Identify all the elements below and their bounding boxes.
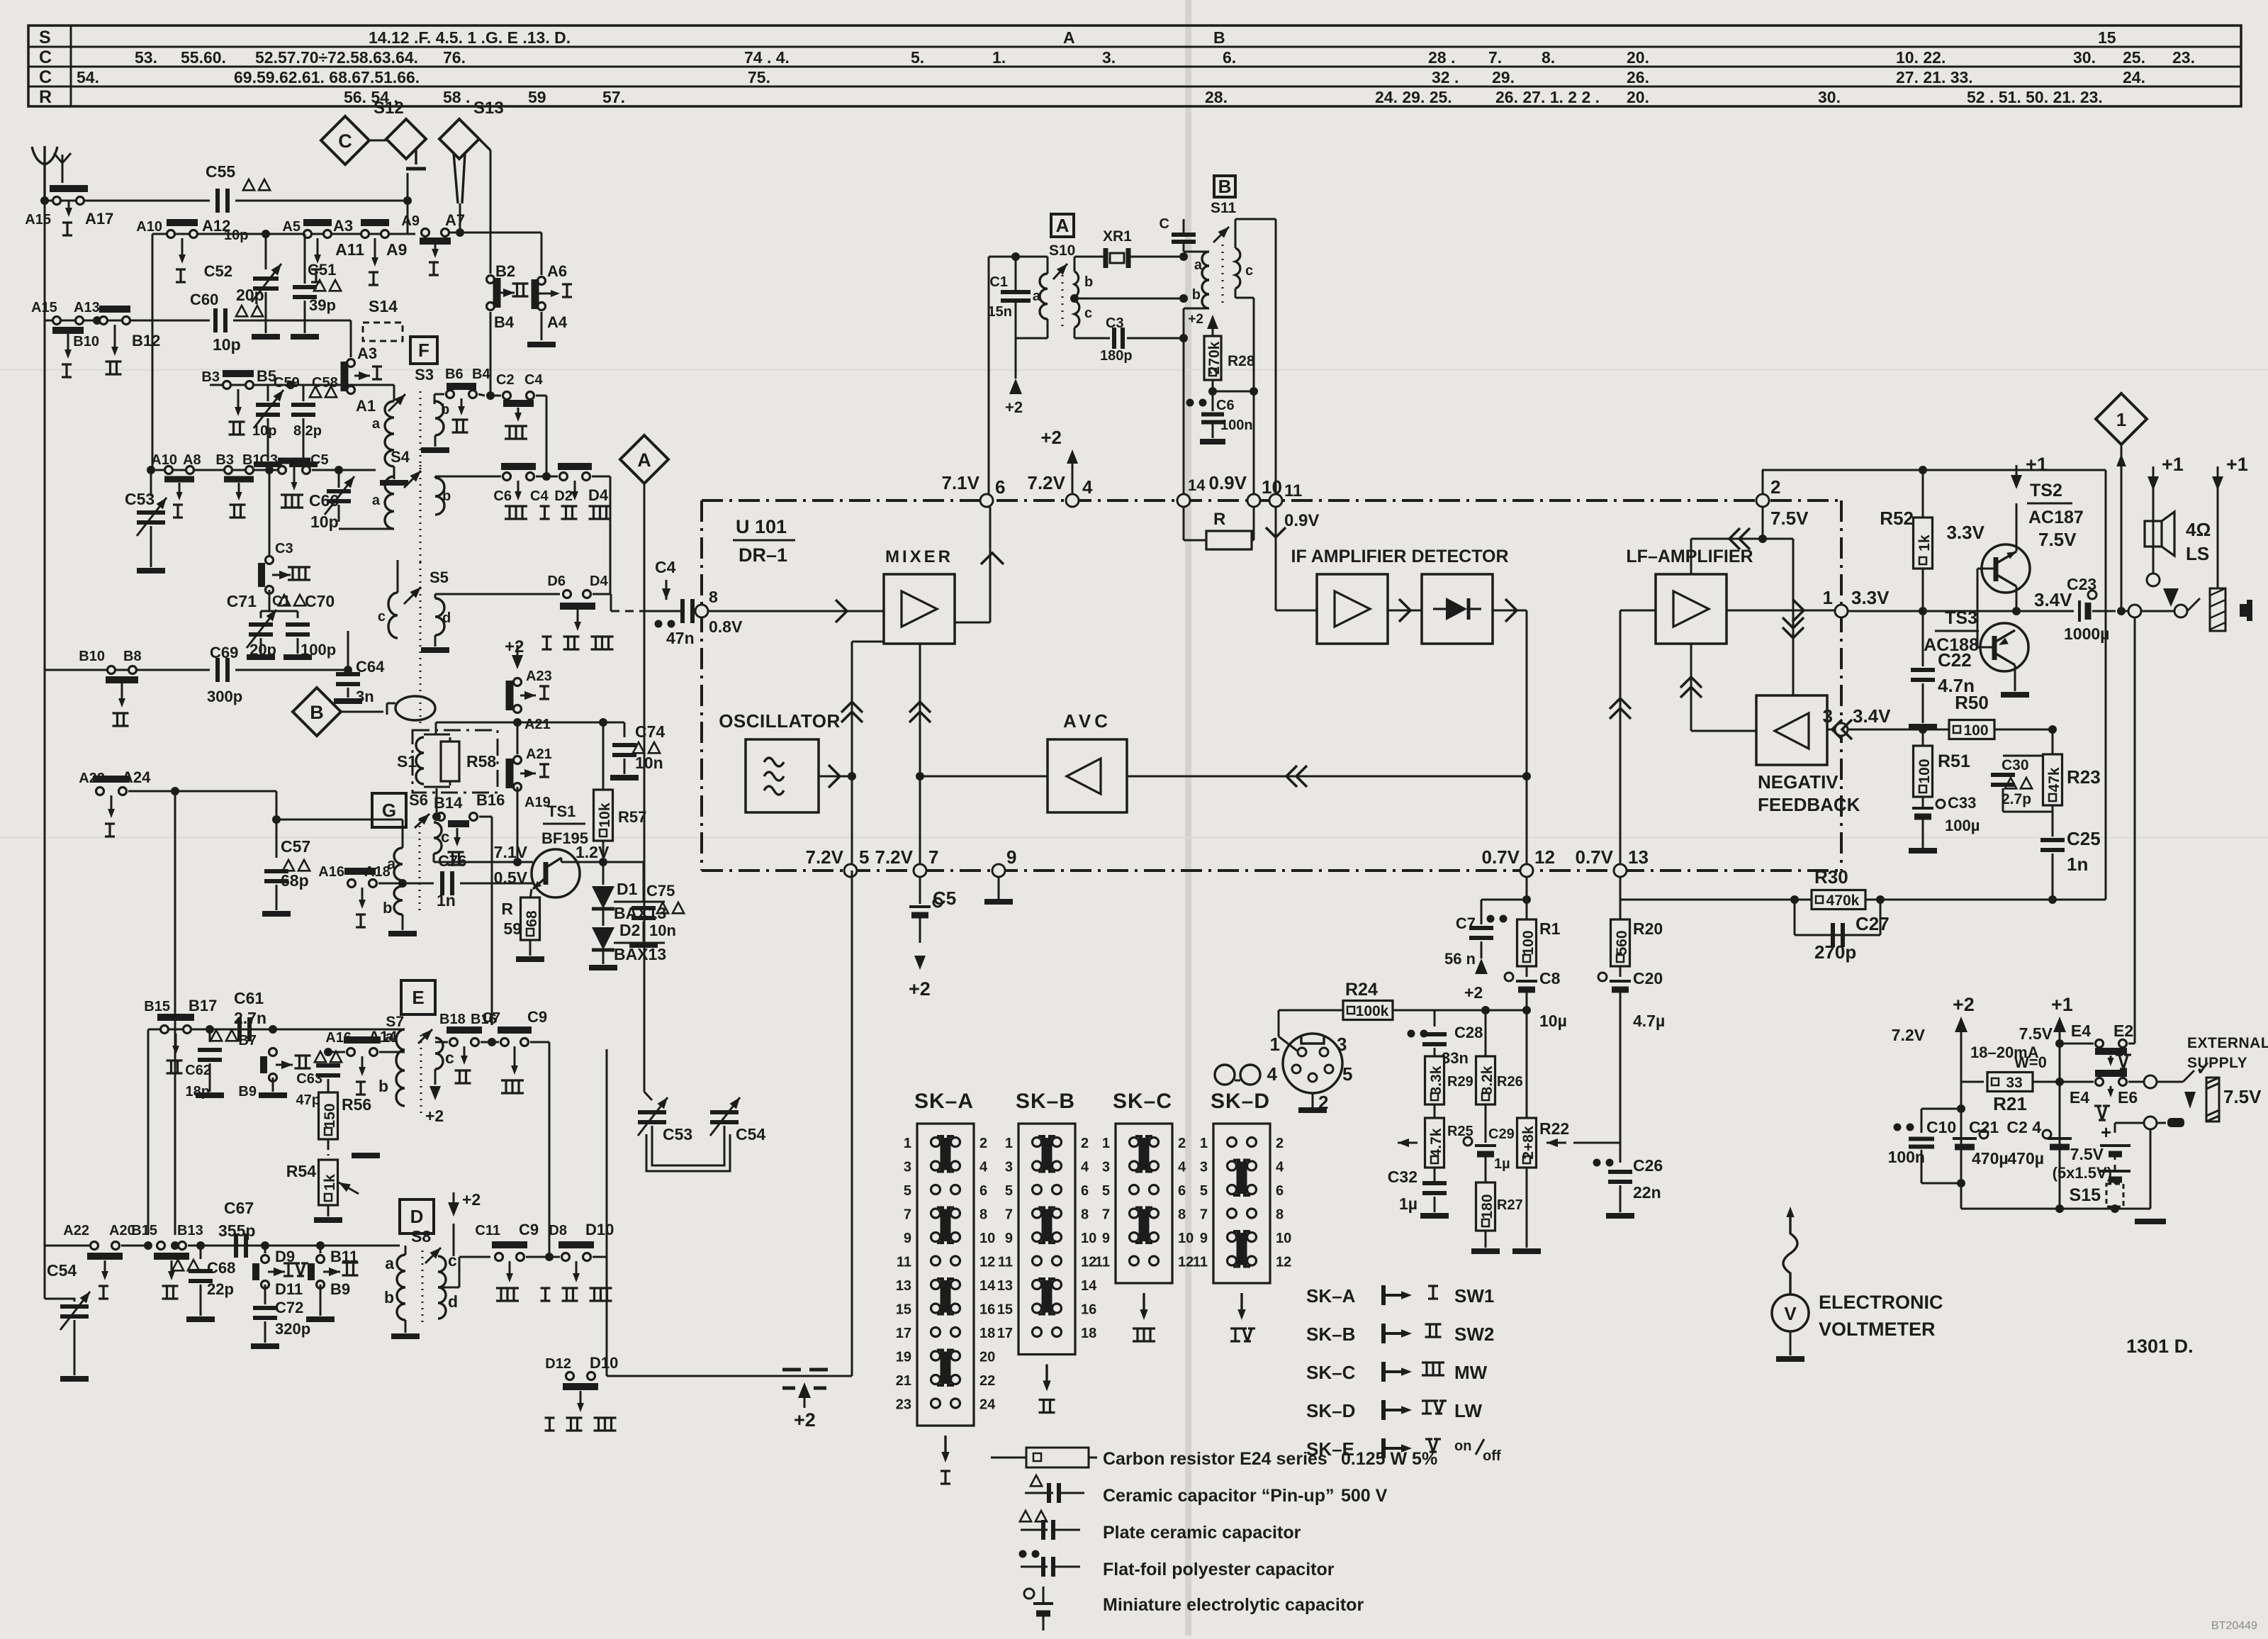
resistor R20 560 xyxy=(1611,919,1630,966)
svg-text:B: B xyxy=(310,702,324,723)
SK-B bridge pins 1-3 xyxy=(1042,1138,1048,1170)
svg-text:4: 4 xyxy=(1081,1160,1089,1175)
svg-text:B10: B10 xyxy=(79,649,105,664)
wire pin 13 up to LF amplifier xyxy=(1619,610,1622,864)
svg-text:7.2V: 7.2V xyxy=(1028,472,1066,493)
svg-text:B7: B7 xyxy=(238,1033,257,1048)
detector block xyxy=(1422,574,1493,644)
svg-text:6: 6 xyxy=(979,1183,987,1199)
svg-text:26. 27. 1. 2 2 .: 26. 27. 1. 2 2 . xyxy=(1495,88,1600,106)
module pin 6 with 7.1V xyxy=(980,494,993,507)
svg-text:S14: S14 xyxy=(369,297,398,315)
volume line from C8 to network xyxy=(1526,1010,1528,1024)
svg-text:B18: B18 xyxy=(439,1012,466,1027)
svg-text:D1: D1 xyxy=(617,880,638,898)
TS1 collector wire xyxy=(561,858,563,862)
supply +2 into pin 4 xyxy=(1067,449,1078,464)
svg-text:C55: C55 xyxy=(206,162,235,181)
supply +2 to R28 xyxy=(1207,315,1218,329)
svg-text:C54: C54 xyxy=(736,1125,765,1143)
svg-text:+2: +2 xyxy=(1188,312,1203,327)
wire TS2/TS3 bases xyxy=(1977,568,1996,570)
switch A3/A1 band I xyxy=(350,320,352,357)
trimmer C54 of tuning gang xyxy=(710,1110,739,1114)
capacitor C10 100n xyxy=(1957,1104,1965,1113)
svg-text:5: 5 xyxy=(1102,1183,1110,1199)
svg-text:1: 1 xyxy=(1270,1034,1280,1055)
capacitor C33 100u xyxy=(1922,797,1924,808)
gang dotted line S4-S5 to oval xyxy=(420,562,422,690)
svg-text:11: 11 xyxy=(897,1255,911,1270)
SK-D bridge pins 9-11 xyxy=(1237,1233,1243,1265)
svg-text:17: 17 xyxy=(997,1326,1013,1341)
svg-text:+2: +2 xyxy=(425,1107,444,1125)
svg-text:c: c xyxy=(445,1048,454,1067)
svg-text:C67: C67 xyxy=(224,1199,254,1217)
connector SK-D box xyxy=(1213,1124,1270,1283)
SK-A bridge pins 19-21 xyxy=(941,1352,947,1385)
svg-text:20.: 20. xyxy=(1627,48,1649,67)
resistor R29 3.3k xyxy=(1425,1056,1444,1104)
svg-text:OSCILLATOR: OSCILLATOR xyxy=(719,710,841,732)
svg-text:9: 9 xyxy=(1102,1231,1110,1246)
svg-text:5: 5 xyxy=(1005,1183,1013,1199)
svg-text:A16: A16 xyxy=(318,864,344,880)
svg-text:SK–C: SK–C xyxy=(1306,1362,1356,1383)
svg-text:0.8V: 0.8V xyxy=(709,617,743,636)
capacitor C52 20p xyxy=(265,234,267,269)
svg-text:33n: 33n xyxy=(1442,1049,1469,1067)
svg-text:2+8k: 2+8k xyxy=(1520,1126,1537,1160)
svg-text:C68: C68 xyxy=(207,1259,235,1277)
svg-text:A3: A3 xyxy=(357,345,377,362)
svg-text:S15: S15 xyxy=(2070,1185,2101,1205)
svg-text:1000µ: 1000µ xyxy=(2064,625,2109,643)
node diamond B xyxy=(293,688,341,736)
resistor R56 150 xyxy=(327,1079,330,1092)
svg-text:4: 4 xyxy=(1276,1160,1284,1175)
svg-text:b: b xyxy=(384,1288,394,1307)
module pin 10 with 0.9V xyxy=(1247,494,1260,507)
svg-text:C27: C27 xyxy=(1856,913,1890,934)
svg-text:15: 15 xyxy=(2098,28,2116,47)
module pin 7 with 7.2V xyxy=(914,864,926,877)
svg-text:SW1: SW1 xyxy=(1454,1285,1494,1307)
svg-text:+2: +2 xyxy=(1040,427,1062,448)
svg-text:3.: 3. xyxy=(1102,48,1116,67)
svg-text:C3: C3 xyxy=(259,452,278,468)
svg-text:C7: C7 xyxy=(482,1010,500,1026)
svg-text:52.57.70÷72.58.63.64.: 52.57.70÷72.58.63.64. xyxy=(255,48,418,67)
svg-text:3: 3 xyxy=(904,1160,911,1175)
svg-text:3: 3 xyxy=(1005,1160,1013,1175)
svg-text:1301 D.: 1301 D. xyxy=(2126,1336,2194,1357)
svg-text:D10: D10 xyxy=(585,1221,614,1238)
module pin 1 with 3.3V xyxy=(1835,605,1848,617)
trimmer C71 20p xyxy=(269,590,271,611)
supply +1 7.5V above TS2 xyxy=(2011,475,2022,489)
svg-text:D11: D11 xyxy=(275,1280,303,1298)
svg-text:C25: C25 xyxy=(2067,828,2101,849)
oscillator block xyxy=(746,739,819,812)
svg-text:R21: R21 xyxy=(1993,1093,2027,1114)
svg-text:A4: A4 xyxy=(547,313,568,331)
svg-text:11: 11 xyxy=(1284,481,1302,500)
svg-text:11: 11 xyxy=(1193,1255,1208,1270)
svg-text:B14: B14 xyxy=(434,794,463,812)
svg-text:S1: S1 xyxy=(397,752,417,771)
svg-text:A22: A22 xyxy=(63,1223,89,1238)
svg-text:24. 29. 25.: 24. 29. 25. xyxy=(1375,88,1452,106)
electronic voltmeter symbol xyxy=(1772,1294,1809,1331)
wire pin5 line down to bottom xyxy=(851,871,853,1376)
wire S5 d to D6/D4 row xyxy=(434,594,437,598)
svg-text:C4: C4 xyxy=(524,372,543,388)
wire row y330 xyxy=(152,233,408,235)
box F xyxy=(410,337,437,364)
svg-text:B2: B2 xyxy=(495,262,515,280)
switch B7/B9 band II xyxy=(269,1025,277,1034)
svg-text:4: 4 xyxy=(1082,476,1093,498)
svg-text:C5: C5 xyxy=(310,452,329,468)
svg-text:28.: 28. xyxy=(1205,88,1228,106)
resistor R52 1k xyxy=(1922,470,1924,518)
svg-text:LF–AMPLIFIER: LF–AMPLIFIER xyxy=(1626,547,1753,566)
svg-text:2: 2 xyxy=(1770,476,1780,498)
svg-text:A23: A23 xyxy=(526,669,552,684)
S10 wiper arrow xyxy=(1053,264,1067,279)
svg-text:6: 6 xyxy=(1276,1183,1284,1199)
svg-text:9: 9 xyxy=(1005,1231,1013,1246)
gang oval indicator xyxy=(395,696,435,720)
battery link from E6 arrow xyxy=(2114,1123,2116,1133)
svg-text:C75: C75 xyxy=(646,882,675,900)
svg-text:21: 21 xyxy=(896,1373,911,1389)
svg-text:27. 21. 33.: 27. 21. 33. xyxy=(1896,68,1973,86)
svg-text:ELECTRONIC: ELECTRONIC xyxy=(1819,1292,1943,1313)
wire A22/A24 row xyxy=(45,790,89,792)
svg-text:Ceramic capacitor “Pin-up”: Ceramic capacitor “Pin-up” xyxy=(1103,1486,1334,1506)
wire from E2 up to earphone rail xyxy=(2128,1043,2135,1045)
wire diamond 1 down to audio line xyxy=(2121,444,2123,611)
S11 wiper arrow xyxy=(1213,227,1229,242)
wire C4 down to C6/C4 row xyxy=(546,396,548,476)
SK-A output arrow xyxy=(944,1436,946,1457)
svg-text:S6: S6 xyxy=(409,791,428,809)
svg-text:2: 2 xyxy=(1081,1136,1089,1151)
svg-text:c: c xyxy=(1245,263,1253,279)
svg-text:BAX13: BAX13 xyxy=(614,945,666,963)
wire row B10/B8 y945 xyxy=(44,320,46,670)
svg-text:52 . 51. 50. 21. 23.: 52 . 51. 50. 21. 23. xyxy=(1967,88,2103,106)
mixer block xyxy=(884,574,955,644)
svg-text:S8: S8 xyxy=(411,1227,431,1246)
trimmer C53 of tuning gang xyxy=(638,1110,666,1114)
svg-text:A13: A13 xyxy=(74,300,100,315)
svg-text:SW2: SW2 xyxy=(1454,1324,1494,1345)
svg-text:10k: 10k xyxy=(597,802,613,827)
svg-text:C10: C10 xyxy=(1926,1118,1956,1136)
svg-text:4Ω: 4Ω xyxy=(2186,519,2211,540)
resistor R51 100 xyxy=(1922,729,1924,746)
svg-text:+2: +2 xyxy=(909,978,931,1000)
svg-text:C4: C4 xyxy=(655,558,676,576)
svg-text:C: C xyxy=(338,130,352,152)
svg-text:MW: MW xyxy=(1454,1362,1488,1383)
svg-text:7.5V: 7.5V xyxy=(2038,529,2077,550)
svg-text:+2: +2 xyxy=(1005,398,1023,416)
svg-text:S11: S11 xyxy=(1211,200,1237,216)
svg-text:A17: A17 xyxy=(85,210,113,228)
wire pin 12 down xyxy=(1526,877,1528,920)
capacitor C28 33n xyxy=(1434,1010,1436,1027)
svg-text:R: R xyxy=(1213,510,1225,529)
svg-text:270k: 270k xyxy=(1206,341,1223,374)
module pin 8 with 0.8V xyxy=(695,605,708,617)
gang bracket xyxy=(652,1137,724,1165)
svg-text:a: a xyxy=(372,416,381,432)
svg-text:5: 5 xyxy=(1342,1063,1352,1085)
svg-text:C69: C69 xyxy=(210,644,238,661)
power section bottom rail xyxy=(1961,1208,2150,1210)
svg-text:2: 2 xyxy=(1276,1136,1284,1151)
svg-text:+2: +2 xyxy=(1464,983,1483,1002)
svg-text:SK–C: SK–C xyxy=(1113,1090,1172,1113)
legend flat-foil polyester capacitor xyxy=(1019,1550,1027,1558)
svg-text:MIXER: MIXER xyxy=(885,547,953,566)
svg-text:100n: 100n xyxy=(1888,1148,1925,1166)
svg-text:14: 14 xyxy=(979,1278,996,1294)
svg-text:+2: +2 xyxy=(1953,994,1975,1015)
svg-text:EXTERNAL: EXTERNAL xyxy=(2187,1035,2268,1051)
svg-text:320p: 320p xyxy=(275,1320,310,1338)
svg-text:C76: C76 xyxy=(438,852,466,870)
switch A6/A4 band I xyxy=(541,233,543,275)
S10 core xyxy=(1062,268,1064,326)
svg-text:C9: C9 xyxy=(527,1008,547,1026)
svg-text:B: B xyxy=(1218,176,1232,197)
svg-text:270p: 270p xyxy=(1814,941,1856,963)
svg-text:LS: LS xyxy=(2186,543,2209,564)
svg-text:R1: R1 xyxy=(1539,919,1561,938)
switch D9/D11 bands IV xyxy=(261,1241,269,1250)
svg-text:9: 9 xyxy=(904,1231,911,1246)
SK-A bridge pins 1-3 xyxy=(941,1138,947,1170)
top supply rail right xyxy=(1762,469,2106,471)
svg-text:R30: R30 xyxy=(1814,866,1848,888)
SK-C output arrow xyxy=(1143,1293,1145,1314)
svg-text:S3: S3 xyxy=(415,366,434,384)
svg-text:a: a xyxy=(1194,257,1203,273)
svg-text:C: C xyxy=(39,67,52,87)
module pin 11 with 0.9V xyxy=(1269,494,1282,507)
svg-text:C59: C59 xyxy=(274,375,300,391)
svg-text:10p: 10p xyxy=(310,513,339,531)
svg-text:a: a xyxy=(385,1254,394,1272)
svg-text:a: a xyxy=(372,493,381,508)
svg-text:22p: 22p xyxy=(207,1280,234,1298)
svg-text:S5: S5 xyxy=(430,569,449,586)
svg-text:1.: 1. xyxy=(992,48,1006,67)
SK-A bridge pins 13-15 xyxy=(941,1280,947,1313)
capacitor C62 18p xyxy=(206,1025,214,1034)
svg-text:B12: B12 xyxy=(132,332,160,349)
svg-text:2: 2 xyxy=(979,1136,987,1151)
wire S3 top to A3/A1 xyxy=(350,398,352,425)
svg-text:C70: C70 xyxy=(305,592,335,610)
svg-text:100k: 100k xyxy=(1356,1003,1389,1019)
svg-text:7.1V: 7.1V xyxy=(942,472,980,493)
IF amplifier block xyxy=(1317,574,1388,644)
svg-text:1n: 1n xyxy=(437,891,456,910)
svg-text:15: 15 xyxy=(896,1302,911,1318)
svg-text:S: S xyxy=(39,28,51,47)
svg-text:D2: D2 xyxy=(619,921,640,939)
svg-text:C: C xyxy=(1160,216,1169,232)
svg-text:C28: C28 xyxy=(1454,1024,1483,1041)
svg-text:VOLTMETER: VOLTMETER xyxy=(1819,1319,1936,1340)
svg-text:d: d xyxy=(448,1292,458,1311)
TS1 emitter resistor R59 68 xyxy=(530,889,532,899)
transistor TS3 AC188 xyxy=(1980,623,2028,671)
bottom return wire xyxy=(607,1375,852,1377)
resistor R58 xyxy=(441,742,459,781)
svg-text:C72: C72 xyxy=(275,1299,303,1316)
svg-text:9: 9 xyxy=(1006,846,1016,868)
svg-text:C20: C20 xyxy=(1633,969,1663,988)
svg-text:150: 150 xyxy=(322,1103,338,1128)
capacitor C22 4.7n xyxy=(1922,611,1924,666)
svg-text:5: 5 xyxy=(859,846,869,868)
module pin 5 with 7.2V xyxy=(844,864,857,877)
supply +1 above jack xyxy=(2217,481,2219,588)
svg-text:1µ: 1µ xyxy=(1494,1156,1510,1172)
svg-text:1k: 1k xyxy=(1916,535,1933,552)
svg-text:8.2k: 8.2k xyxy=(1479,1065,1495,1095)
ground below pin 9 xyxy=(998,877,1000,899)
audio output line xyxy=(1848,610,2074,612)
capacitor C76 1n xyxy=(403,883,434,885)
svg-text:9: 9 xyxy=(1200,1231,1208,1246)
wire pin 11 down to IF amplifier xyxy=(1275,507,1277,610)
supply +2 below C1 xyxy=(1009,379,1022,394)
resistor R26 8.2k xyxy=(1485,1010,1487,1056)
S11 right wire to pin 11 xyxy=(1275,219,1277,494)
svg-text:C53: C53 xyxy=(663,1125,692,1143)
svg-text:B10: B10 xyxy=(73,334,99,349)
wire S1 box to S6 xyxy=(436,788,438,812)
svg-text:8.2p: 8.2p xyxy=(293,423,322,439)
module pin 4 with 7.2V xyxy=(1066,494,1079,507)
svg-text:10. 22.: 10. 22. xyxy=(1896,48,1946,67)
SK-D bridge pins 3-5 xyxy=(1237,1162,1243,1195)
svg-text:A: A xyxy=(1056,215,1070,236)
svg-text:A15: A15 xyxy=(31,300,57,315)
S11 coil b xyxy=(1202,280,1209,308)
svg-text:29.: 29. xyxy=(1492,68,1515,86)
svg-text:10: 10 xyxy=(1081,1231,1096,1246)
svg-text:+1: +1 xyxy=(2162,454,2184,475)
resistor R23 47k xyxy=(2043,754,2062,805)
capacitor C68 22p xyxy=(196,1241,205,1250)
svg-text:32 .: 32 . xyxy=(1432,68,1459,86)
svg-text:SK–A: SK–A xyxy=(1306,1285,1356,1307)
legend carbon resistor xyxy=(991,1457,1026,1459)
resistor R22 2+8k xyxy=(1526,1024,1528,1119)
wire row y1019 xyxy=(436,722,624,724)
svg-text:2.7p: 2.7p xyxy=(2002,791,2031,807)
svg-text:C51: C51 xyxy=(308,261,336,279)
svg-text:A9: A9 xyxy=(386,240,407,259)
capacitor C29 1u xyxy=(1485,1104,1487,1143)
svg-text:E: E xyxy=(412,987,424,1008)
svg-text:6.: 6. xyxy=(1223,48,1236,67)
svg-text:C23: C23 xyxy=(2067,575,2096,593)
svg-text:39p: 39p xyxy=(309,296,336,314)
parts-location table frame xyxy=(28,26,2241,106)
svg-text:1k: 1k xyxy=(322,1174,338,1191)
svg-text:E4: E4 xyxy=(2071,1022,2091,1040)
svg-text:0.9V: 0.9V xyxy=(1284,511,1319,530)
svg-text:1µ: 1µ xyxy=(1399,1195,1417,1213)
switch B11/B9 band II xyxy=(316,1241,325,1250)
svg-text:+2: +2 xyxy=(505,637,524,656)
svg-text:3: 3 xyxy=(1102,1160,1110,1175)
svg-text:4.7k: 4.7k xyxy=(1428,1128,1444,1157)
svg-text:6: 6 xyxy=(1081,1183,1089,1199)
S10 coil b xyxy=(1074,272,1079,297)
wire down to D12/D10 row xyxy=(606,1257,607,1376)
svg-text:16: 16 xyxy=(1081,1302,1096,1318)
svg-text:Carbon resistor E24 series: Carbon resistor E24 series xyxy=(1103,1449,1327,1469)
svg-text:C1: C1 xyxy=(989,274,1008,290)
svg-text:7.5V: 7.5V xyxy=(2070,1145,2104,1163)
svg-text:1: 1 xyxy=(1005,1136,1013,1151)
svg-text:C62: C62 xyxy=(185,1063,211,1078)
svg-text:24.: 24. xyxy=(2123,68,2145,86)
wire oscillator to mixer xyxy=(819,776,852,778)
svg-text:D: D xyxy=(410,1206,424,1227)
box E xyxy=(401,980,435,1014)
AVC block xyxy=(1048,739,1127,812)
legend plate ceramic capacitor xyxy=(1020,1511,1031,1521)
svg-text:b: b xyxy=(1084,274,1093,290)
dashed chassis +2 connection xyxy=(782,1368,801,1372)
wire pin7 to mixer bottom xyxy=(916,772,924,781)
svg-text:C30: C30 xyxy=(2002,757,2029,773)
svg-text:A5: A5 xyxy=(282,219,301,235)
capacitor C27 270p xyxy=(1794,900,1796,935)
svg-text:6: 6 xyxy=(1178,1183,1186,1199)
box A marker xyxy=(1051,214,1074,237)
S11 coil c xyxy=(1235,248,1240,289)
svg-text:C29: C29 xyxy=(1488,1126,1515,1142)
svg-text:R20: R20 xyxy=(1633,919,1663,938)
svg-text:R28: R28 xyxy=(1228,353,1255,369)
svg-text:B4: B4 xyxy=(494,313,515,331)
svg-text:+1: +1 xyxy=(2051,994,2073,1015)
svg-text:100: 100 xyxy=(1963,722,1988,739)
svg-text:C5: C5 xyxy=(933,888,956,909)
wire row y1757 xyxy=(45,1245,83,1246)
supply +2 below S7 xyxy=(434,1069,437,1085)
wire LF amplifier output to pin 1 xyxy=(1727,610,1836,612)
svg-text:7.5V: 7.5V xyxy=(2223,1086,2262,1107)
box B marker xyxy=(1214,176,1235,197)
svg-text:SK–B: SK–B xyxy=(1306,1324,1355,1345)
capacitor C25 1n xyxy=(2040,838,2065,842)
svg-text:10n: 10n xyxy=(649,922,676,939)
